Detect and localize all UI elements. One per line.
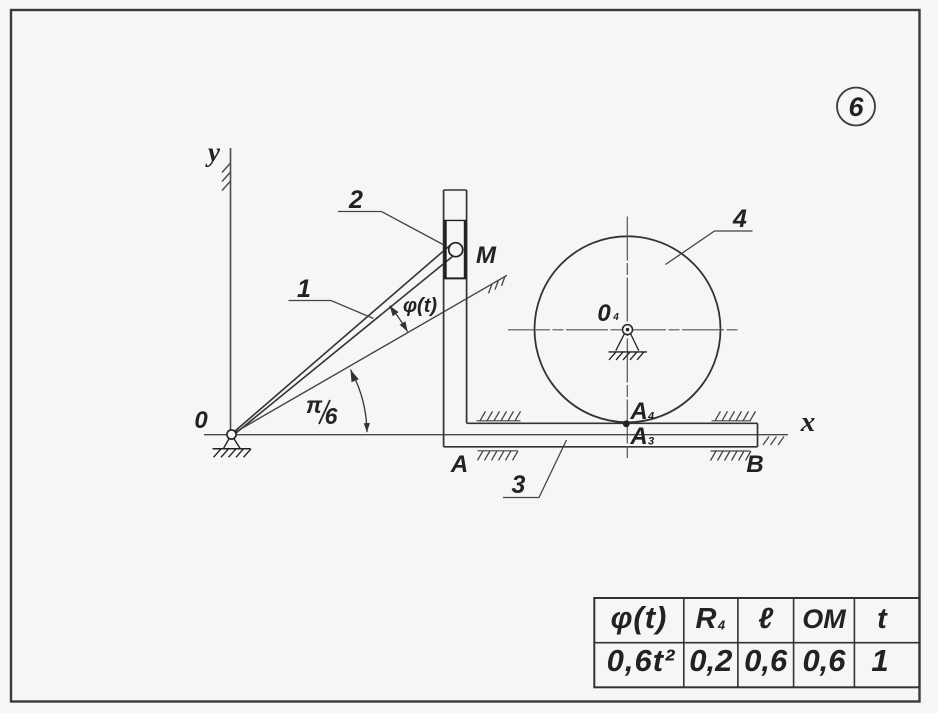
svg-text:M: M [476,242,497,269]
y axis [230,148,232,430]
L-shaped link 3 vertical channel [444,190,467,447]
x axis end hatch [763,437,784,446]
guide hatch lower-right [711,451,752,461]
svg-text:2: 2 [348,186,363,214]
svg-text:4: 4 [732,205,747,233]
contact point dot A4/A3 [623,420,630,427]
label A3 [629,423,654,450]
pin M [449,243,463,257]
svg-text:A: A [629,423,647,450]
svg-text:1: 1 [297,275,311,303]
pi/6 reference line [234,275,508,433]
y axis hatch [222,163,231,191]
link 3 horizontal bar [444,423,758,447]
slider block 2 [444,220,467,278]
svg-text:0: 0 [597,300,611,327]
phi arc arrow upper [390,306,399,317]
label 4 leader [666,231,753,265]
phi arc arrow lower [400,321,408,331]
svg-text:3: 3 [512,471,526,499]
label O4 [597,300,619,327]
pi/6 line fixed hatch [489,276,506,293]
svg-text:ℓ: ℓ [758,603,774,635]
svg-text:A: A [450,451,468,478]
label 2 leader [338,212,443,245]
table header R4 [696,603,726,635]
guide hatch upper-left [477,411,521,421]
angle phi(t) arc [390,306,408,332]
svg-text:π: π [306,392,323,418]
figure number circle 6 [837,88,875,126]
svg-text:4: 4 [717,618,726,633]
svg-text:0,6t²: 0,6t² [607,643,676,678]
guide hatch upper-right [712,411,756,421]
angle pi/6 arc [351,370,368,433]
svg-text:6: 6 [325,403,338,429]
svg-text:φ(t): φ(t) [611,600,668,635]
label 3 leader [503,440,567,498]
svg-text:0,2: 0,2 [689,643,732,678]
wheel vertical centerline [626,217,628,460]
svg-text:3: 3 [648,436,654,448]
pivot O [213,430,252,457]
label A4 [629,398,654,425]
svg-text:y: y [205,137,221,167]
label pi/6 [306,392,338,429]
svg-text:4: 4 [612,312,619,323]
svg-text:φ(t): φ(t) [403,295,437,317]
svg-text:R: R [696,603,717,635]
guide hatch lower-left [478,451,519,461]
svg-text:A: A [629,398,647,425]
svg-text:0,6: 0,6 [744,643,788,678]
svg-text:6: 6 [848,92,864,122]
label 1 leader [289,301,374,319]
svg-text:x: x [800,406,816,438]
wheel 4 [535,236,721,422]
svg-text:1: 1 [871,643,888,678]
svg-text:4: 4 [647,411,654,423]
pi/6 arc arrow lower [364,423,370,432]
x axis [204,434,788,436]
svg-text:0: 0 [194,407,208,434]
parameter table [594,598,919,687]
svg-text:0,6: 0,6 [802,643,846,678]
pivot O4 [609,325,648,360]
svg-text:t: t [877,603,888,635]
rod 1 [235,244,453,433]
svg-text:OM: OM [802,604,846,634]
wheel horizontal centerline [508,329,738,331]
pi/6 arc arrow upper [351,370,359,383]
